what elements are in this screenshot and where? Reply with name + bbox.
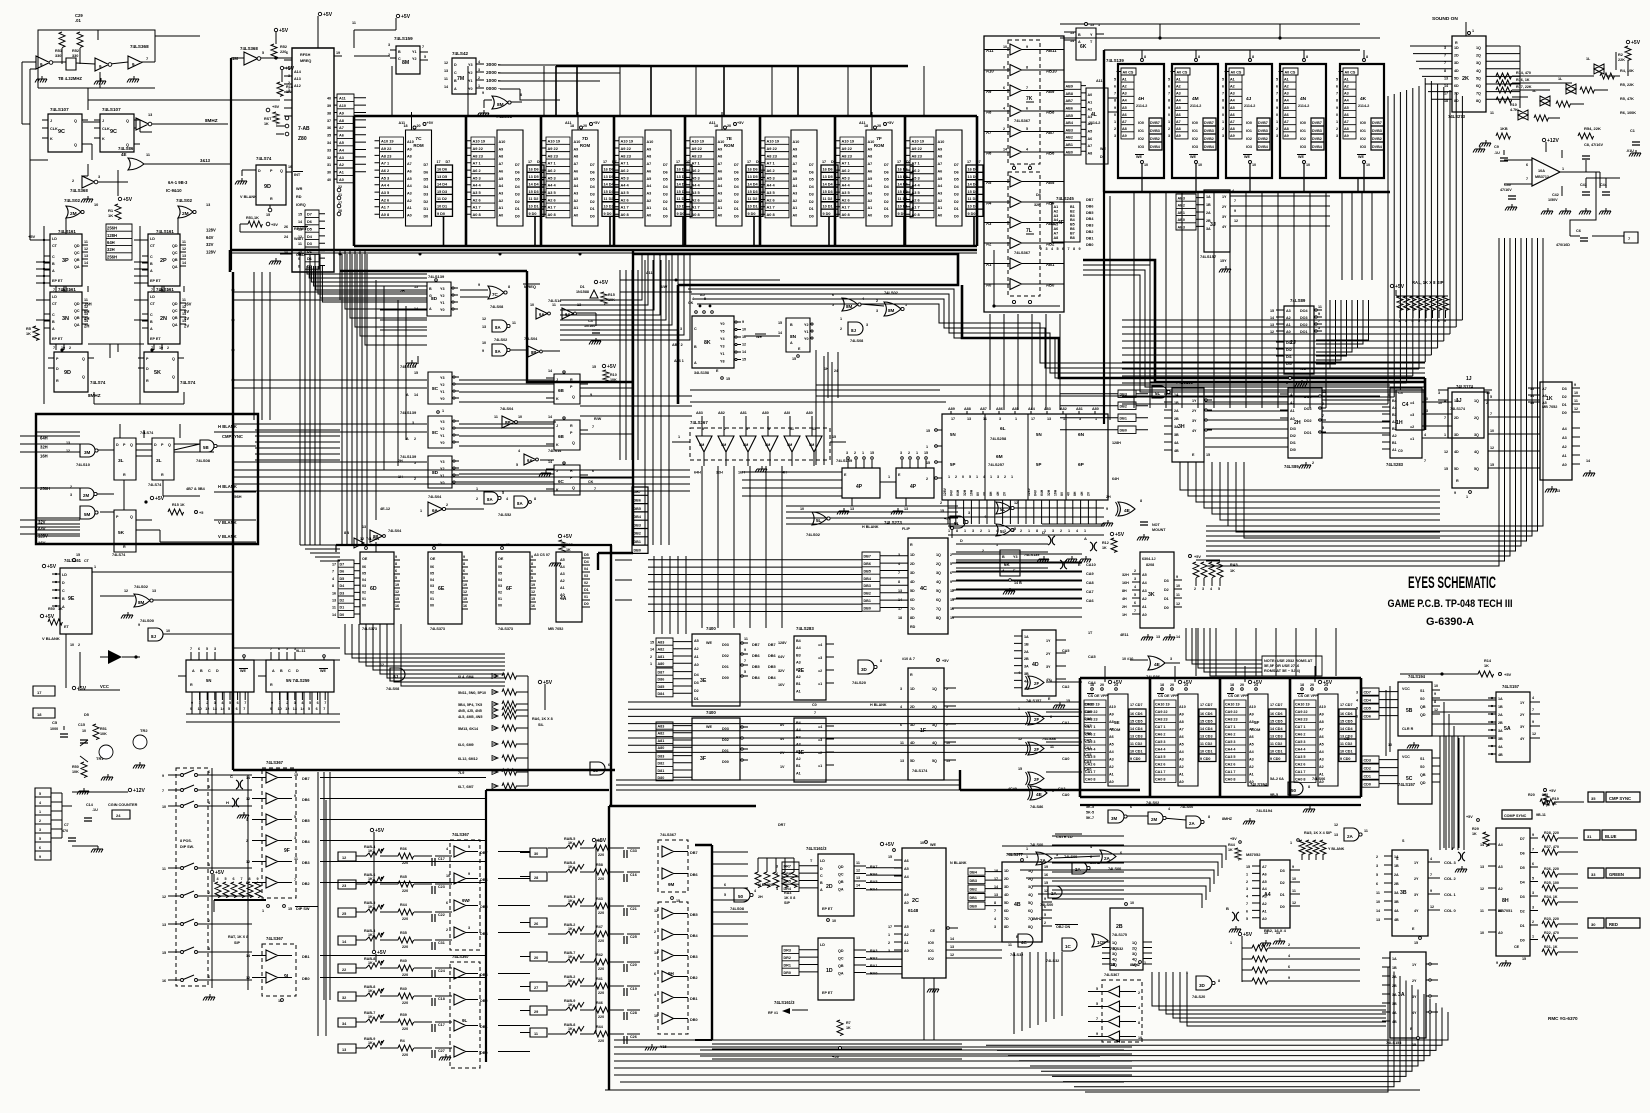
svg-text:8B: 8B (373, 534, 378, 539)
svg-text:A9 22: A9 22 (381, 146, 392, 151)
svg-text:+5V: +5V (401, 14, 411, 20)
svg-text:D5: D5 (663, 178, 668, 182)
svg-text:0: 0 (962, 475, 964, 479)
svg-text:15 D3: 15 D3 (823, 190, 833, 194)
svg-text:11: 11 (352, 21, 356, 25)
svg-text:A2: A2 (1286, 316, 1291, 320)
svg-text:2114-2: 2114-2 (1136, 104, 1147, 108)
svg-text:C18: C18 (438, 997, 445, 1001)
svg-text:DI0: DI0 (1286, 362, 1292, 366)
svg-text:A0: A0 (1109, 780, 1114, 784)
svg-text:6: 6 (1425, 319, 1427, 323)
svg-text:DB2: DB2 (634, 532, 641, 536)
svg-text:15: 15 (888, 855, 892, 859)
svg-text:A11: A11 (339, 97, 346, 101)
svg-text:A: A (429, 307, 432, 311)
svg-text:8Q: 8Q (1028, 925, 1033, 929)
svg-text:9: 9 (742, 320, 744, 324)
svg-text:Q: Q (74, 119, 77, 123)
svg-text:A10 19: A10 19 (381, 139, 394, 144)
svg-text:8: 8 (1308, 785, 1310, 789)
svg-text:9L-11: 9L-11 (296, 649, 305, 653)
svg-text:4B: 4B (1392, 1020, 1397, 1024)
svg-text:2A: 2A (1394, 873, 1399, 877)
svg-text:1Y: 1Y (1046, 639, 1051, 643)
svg-text:17: 17 (528, 160, 532, 164)
svg-text:7: 7 (1114, 92, 1116, 96)
svg-text:1K: 1K (180, 503, 185, 507)
svg-text:2V: 2V (1086, 491, 1090, 496)
svg-text:6: 6 (316, 707, 318, 711)
svg-text:A7: A7 (1230, 120, 1235, 124)
svg-text:2H: 2H (400, 289, 405, 293)
svg-text:R55: R55 (566, 543, 573, 547)
svg-text:8A: 8A (495, 325, 501, 330)
svg-text:6: 6 (317, 701, 319, 705)
svg-text:D1: D1 (663, 207, 668, 211)
svg-text:11 CD2: 11 CD2 (1340, 742, 1352, 746)
svg-text:DR1: DR1 (784, 964, 791, 968)
svg-text:2: 2 (446, 928, 448, 932)
svg-text:R19: R19 (1552, 797, 1559, 801)
svg-text:15: 15 (463, 597, 467, 601)
svg-text:12: 12 (1574, 407, 1578, 411)
svg-text:AB1: AB1 (1178, 211, 1185, 215)
svg-text:2: 2 (840, 327, 842, 331)
svg-text:1: 1 (1084, 529, 1086, 533)
svg-text:9L: 9L (462, 1018, 468, 1023)
svg-text:A7 1: A7 1 (912, 161, 921, 166)
svg-text:C42: C42 (1552, 193, 1559, 197)
svg-text:03: 03 (498, 584, 502, 588)
svg-text:D6: D6 (884, 170, 889, 174)
svg-text:R: R (123, 473, 126, 477)
svg-text:1A: 1A (1498, 697, 1503, 701)
svg-text:8A: 8A (517, 501, 523, 506)
svg-text:D2: D2 (340, 599, 345, 603)
svg-text:15: 15 (288, 907, 292, 911)
svg-text:74LS194: 74LS194 (1250, 782, 1268, 787)
svg-text:RA6, 1K X 8: RA6, 1K X 8 (532, 717, 553, 721)
svg-text:9C: 9C (58, 129, 65, 135)
svg-text:10: 10 (1424, 397, 1428, 401)
svg-text:16V: 16V (778, 683, 785, 687)
svg-text:RED: RED (1609, 922, 1618, 927)
svg-text:12: 12 (1434, 708, 1438, 712)
svg-text:A3: A3 (796, 661, 801, 665)
svg-text:A0: A0 (868, 214, 873, 218)
svg-text:2: 2 (650, 655, 652, 659)
svg-text:22K: 22K (1618, 58, 1625, 62)
svg-text:MREQ: MREQ (300, 59, 311, 63)
svg-text:1L: 1L (1558, 77, 1563, 81)
svg-text:7: 7 (1068, 247, 1070, 251)
svg-text:1K: 1K (1472, 832, 1477, 836)
svg-text:32: 32 (327, 156, 331, 160)
svg-text:D1: D1 (1164, 597, 1169, 601)
svg-text:5N: 5N (950, 432, 956, 437)
svg-text:5B: 5B (203, 445, 209, 450)
svg-text:D3: D3 (1562, 387, 1567, 391)
svg-text:2A: 2A (1051, 891, 1057, 896)
svg-text:CT: CT (52, 302, 58, 306)
svg-text:74LS157: 74LS157 (1200, 254, 1217, 259)
svg-text:A3: A3 (1122, 92, 1127, 96)
svg-text:1: 1 (862, 451, 864, 455)
svg-text:A10: A10 (1109, 705, 1116, 709)
svg-text:1: 1 (442, 409, 444, 413)
svg-text:R50: R50 (48, 607, 55, 611)
svg-text:74LS74: 74LS74 (148, 483, 162, 487)
svg-text:37: 37 (327, 119, 331, 123)
svg-text:7: 7 (1134, 609, 1136, 613)
svg-text:CA0 8: CA0 8 (1085, 778, 1095, 782)
svg-text:S1: S1 (1420, 757, 1425, 761)
svg-text:2P: 2P (160, 258, 167, 264)
svg-text:74LS10: 74LS10 (76, 462, 91, 467)
svg-text:+5V: +5V (1631, 40, 1641, 46)
svg-text:9: 9 (702, 427, 704, 431)
svg-text:AB4: AB4 (1066, 121, 1074, 125)
svg-text:8MHZ: 8MHZ (88, 393, 101, 398)
svg-text:DI3: DI3 (1286, 341, 1292, 345)
svg-text:5: 5 (1168, 77, 1170, 81)
svg-text:A0 8: A0 8 (381, 212, 390, 217)
svg-text:03: 03 (430, 584, 434, 588)
svg-text:32V: 32V (38, 520, 46, 525)
svg-text:3: 3 (1246, 887, 1248, 891)
svg-text:1K: 1K (26, 332, 31, 336)
svg-text:8Q: 8Q (1476, 99, 1481, 103)
svg-text:DVB3: DVB3 (1372, 129, 1382, 133)
svg-text:ROM: ROM (413, 143, 424, 148)
svg-text:16 D6: 16 D6 (437, 168, 447, 172)
svg-text:16 CD6: 16 CD6 (1340, 712, 1353, 716)
svg-text:20: 20 (534, 956, 538, 960)
svg-text:9 CD0: 9 CD0 (1270, 757, 1280, 761)
svg-text:A0 8: A0 8 (692, 212, 701, 217)
svg-text:A0: A0 (339, 178, 344, 182)
svg-text:D2: D2 (1562, 395, 1567, 399)
svg-text:4P: 4P (856, 484, 863, 490)
svg-text:CA1 7: CA1 7 (1155, 770, 1165, 774)
svg-text:3: 3 (478, 68, 480, 72)
svg-text:2: 2 (1222, 127, 1224, 131)
svg-text:16 CD6: 16 CD6 (1200, 712, 1213, 716)
svg-text:QB: QB (172, 258, 178, 262)
svg-text:CD7: CD7 (1364, 691, 1371, 695)
svg-text:RMC #G-6370: RMC #G-6370 (1548, 1016, 1578, 1021)
svg-text:74LS367: 74LS367 (452, 832, 470, 837)
svg-text:5: 5 (1322, 426, 1324, 430)
svg-text:DB2: DB2 (690, 976, 698, 980)
svg-text:D82: D82 (658, 762, 665, 766)
svg-text:1B: 1B (1394, 864, 1399, 868)
svg-text:3Y: 3Y (1414, 893, 1419, 897)
svg-text:1D: 1D (910, 553, 915, 557)
svg-text:2B: 2B (1174, 417, 1179, 421)
svg-text:DB4: DB4 (768, 676, 776, 680)
svg-text:DI0: DI0 (1290, 448, 1296, 452)
svg-text:2C: 2C (912, 898, 919, 904)
svg-text:N BLANK: N BLANK (950, 861, 967, 865)
svg-text:14 D4: 14 D4 (823, 182, 834, 186)
svg-text:=3: =3 (818, 656, 822, 660)
svg-text:DB7: DB7 (1086, 198, 1093, 202)
svg-text:8Q: 8Q (936, 616, 941, 620)
svg-text:3: 3 (997, 475, 999, 479)
svg-text:A2 6: A2 6 (621, 197, 630, 202)
svg-text:A0 CS: A0 CS (1231, 71, 1242, 75)
svg-text:Q: Q (130, 443, 133, 447)
svg-text:DB0: DB0 (1120, 429, 1127, 433)
svg-text:2: 2 (1276, 127, 1278, 131)
svg-text:220: 220 (402, 1053, 408, 1057)
svg-text:5E: 5E (1114, 720, 1120, 725)
svg-text:8D: 8D (1454, 99, 1459, 103)
svg-text:7400: 7400 (706, 710, 716, 715)
svg-text:+5V: +5V (77, 686, 87, 692)
svg-text:6D: 6D (1454, 84, 1459, 88)
svg-text:A9: A9 (339, 111, 344, 115)
svg-text:4Q: 4Q (1112, 958, 1117, 962)
svg-text:15: 15 (1522, 957, 1526, 961)
svg-text:DB3: DB3 (480, 973, 488, 977)
svg-text:9: 9 (1168, 106, 1170, 110)
svg-text:IC-9&10: IC-9&10 (166, 188, 182, 193)
svg-text:8J: 8J (393, 674, 399, 679)
svg-text:74LS14: 74LS14 (548, 449, 562, 453)
svg-text:4D: 4D (1032, 662, 1039, 668)
svg-text:11: 11 (856, 861, 860, 865)
svg-text:1K: 1K (368, 933, 373, 937)
svg-text:LD: LD (820, 943, 825, 947)
svg-text:A5: A5 (1542, 401, 1547, 405)
svg-text:2114-2: 2114-2 (1358, 104, 1369, 108)
svg-text:1Y: 1Y (1192, 399, 1197, 403)
svg-text:DB6: DB6 (864, 562, 871, 566)
svg-text:CA2: CA2 (1062, 685, 1069, 689)
svg-text:8: 8 (1336, 99, 1338, 103)
svg-text:A1: A1 (1319, 773, 1324, 777)
svg-text:12: 12 (1234, 219, 1238, 223)
svg-text:2: 2 (908, 451, 910, 455)
svg-text:13: 13 (206, 203, 210, 207)
svg-text:7F: 7F (876, 136, 882, 142)
svg-text:C21: C21 (630, 907, 637, 911)
svg-text:74LS373: 74LS373 (430, 627, 445, 631)
svg-text:A10 19: A10 19 (912, 139, 925, 144)
svg-text:AB2: AB2 (1178, 204, 1185, 208)
svg-text:10: 10 (1252, 163, 1256, 167)
svg-text:39: 39 (327, 104, 331, 108)
svg-text:CA4 4: CA4 4 (1295, 748, 1306, 752)
svg-text:7: 7 (898, 571, 900, 575)
svg-text:9: 9 (1114, 106, 1116, 110)
svg-text:D7: D7 (446, 160, 451, 164)
svg-text:CS OE VPP: CS OE VPP (1228, 694, 1248, 698)
svg-text:2V: 2V (780, 751, 785, 755)
svg-text:8: 8 (1073, 247, 1075, 251)
svg-text:12: 12 (380, 663, 384, 667)
svg-text:15: 15 (395, 597, 399, 601)
svg-text:RD: RD (296, 195, 302, 199)
svg-text:6D: 6D (370, 586, 377, 592)
svg-text:DB7: DB7 (768, 643, 776, 647)
svg-text:D6: D6 (954, 170, 959, 174)
svg-text:B: B (820, 881, 823, 885)
svg-text:SIP: SIP (784, 901, 790, 905)
svg-text:Q: Q (172, 357, 175, 361)
svg-text:8C: 8C (432, 430, 439, 436)
svg-text:.1U: .1U (92, 808, 98, 812)
svg-text:12: 12 (531, 590, 535, 594)
svg-text:5: 5 (309, 701, 311, 705)
svg-text:A5 3: A5 3 (473, 175, 482, 180)
svg-text:1: 1 (478, 84, 480, 88)
svg-text:1K: 1K (568, 899, 573, 903)
svg-text:3L: 3L (156, 458, 162, 464)
svg-text:2114-2: 2114-2 (1244, 104, 1255, 108)
svg-text:74LS04: 74LS04 (524, 337, 538, 341)
svg-text:1: 1 (420, 509, 422, 513)
svg-text:3Y: 3Y (1046, 665, 1051, 669)
svg-text:A1: A1 (1392, 448, 1397, 452)
svg-text:4C: 4C (1021, 940, 1028, 945)
svg-text:10 D1: 10 D1 (529, 204, 539, 208)
svg-text:9 D0: 9 D0 (604, 212, 612, 216)
svg-text:TB 4.32MHZ: TB 4.32MHZ (58, 76, 82, 81)
svg-text:A0 CS: A0 CS (1177, 71, 1188, 75)
svg-text:06: 06 (362, 565, 366, 569)
svg-text:1: 1 (678, 435, 680, 439)
svg-text:4E11: 4E11 (1120, 633, 1129, 637)
svg-text:6L12, 6M12: 6L12, 6M12 (458, 757, 478, 761)
svg-text:A5: A5 (694, 639, 699, 643)
svg-text:A9: A9 (574, 147, 579, 151)
svg-text:AB1: AB1 (1066, 143, 1073, 147)
svg-text:8: 8 (508, 285, 510, 289)
svg-text:38: 38 (327, 111, 331, 115)
svg-text:8M: 8M (497, 102, 504, 108)
svg-text:9: 9 (531, 555, 533, 559)
svg-text:DB1: DB1 (634, 540, 641, 544)
svg-text:RA4: RA4 (870, 888, 878, 892)
svg-text:11 D2: 11 D2 (437, 197, 447, 201)
svg-text:6C: 6C (558, 479, 565, 484)
svg-text:13 D5: 13 D5 (529, 175, 539, 179)
svg-text:1: 1 (199, 701, 201, 705)
svg-text:+5V: +5V (1243, 932, 1253, 938)
svg-text:Z80: Z80 (298, 136, 307, 142)
svg-text:74LS245: 74LS245 (1056, 196, 1074, 201)
svg-text:A1: A1 (1249, 773, 1254, 777)
svg-text:74LS368: 74LS368 (240, 46, 258, 51)
svg-text:D5: D5 (424, 178, 429, 182)
svg-text:AB10: AB10 (1046, 69, 1057, 74)
svg-text:QB: QB (1420, 773, 1426, 777)
svg-text:5: 5 (531, 576, 533, 580)
svg-text:D03: D03 (722, 727, 729, 731)
svg-text:A0: A0 (938, 214, 943, 218)
svg-text:14 D4: 14 D4 (529, 182, 540, 186)
svg-text:A82: A82 (658, 648, 665, 652)
svg-text:Y2: Y2 (412, 57, 417, 61)
svg-text:10 D1: 10 D1 (748, 204, 758, 208)
svg-text:11: 11 (444, 77, 448, 81)
svg-text:8: 8 (298, 264, 300, 268)
svg-text:12: 12 (162, 895, 166, 899)
svg-text:10: 10 (1376, 900, 1380, 904)
svg-text:R36: R36 (400, 847, 407, 851)
svg-text:D5: D5 (340, 577, 345, 581)
svg-text:1Q: 1Q (936, 553, 941, 557)
svg-text:74LS74: 74LS74 (140, 431, 154, 435)
svg-text:DB3: DB3 (1086, 224, 1093, 228)
svg-text:RESET: RESET (294, 226, 308, 231)
svg-text:A2: A2 (986, 242, 992, 247)
svg-text:3: 3 (1202, 587, 1204, 591)
svg-text:A2: A2 (1392, 434, 1397, 438)
svg-text:7: 7 (1444, 54, 1446, 58)
svg-text:FLIP: FLIP (902, 527, 911, 531)
svg-text:LD: LD (820, 859, 825, 863)
svg-text:R4, 10K: R4, 10K (1620, 69, 1634, 73)
svg-text:5: 5 (468, 845, 470, 849)
svg-text:A7: A7 (1344, 120, 1349, 124)
svg-text:AB3: AB3 (1178, 225, 1185, 229)
svg-text:4Q: 4Q (1132, 958, 1137, 962)
svg-text:15 D3: 15 D3 (529, 190, 539, 194)
svg-text:11 D2: 11 D2 (898, 197, 908, 201)
svg-text:10 CD1: 10 CD1 (1200, 749, 1213, 753)
svg-text:A8: A8 (718, 155, 723, 159)
svg-text:CA3 5: CA3 5 (1225, 755, 1235, 759)
svg-text:OE: OE (498, 557, 504, 561)
svg-text:A8 23: A8 23 (621, 153, 632, 158)
svg-text:10/160: 10/160 (584, 324, 595, 328)
svg-text:9: 9 (138, 623, 140, 627)
svg-text:A1: A1 (1122, 77, 1127, 81)
svg-text:A6: A6 (904, 859, 909, 863)
svg-text:A8: A8 (793, 155, 798, 159)
svg-text:R: R (570, 378, 573, 382)
svg-text:02: 02 (430, 591, 434, 595)
svg-text:A2: A2 (339, 163, 344, 167)
svg-text:74LS52: 74LS52 (498, 513, 511, 517)
svg-text:15: 15 (778, 321, 782, 325)
svg-text:CA4 4: CA4 4 (1155, 748, 1166, 752)
svg-text:6: 6 (1526, 163, 1528, 167)
svg-text:5N 74LS259: 5N 74LS259 (286, 678, 310, 683)
svg-text:7: 7 (1430, 873, 1432, 877)
svg-text:9: 9 (270, 707, 272, 711)
svg-text:6F: 6F (506, 586, 512, 592)
svg-text:12: 12 (742, 343, 746, 347)
svg-text:3Y: 3Y (1222, 215, 1227, 219)
svg-text:D0: D0 (1562, 411, 1567, 415)
svg-text:A7: A7 (868, 162, 873, 166)
svg-text:9: 9 (744, 648, 746, 652)
svg-text:74LS157: 74LS157 (1398, 782, 1416, 787)
svg-text:1K: 1K (1102, 546, 1107, 550)
svg-text:9: 9 (395, 555, 397, 559)
svg-text:11: 11 (162, 867, 166, 871)
svg-text:06: 06 (430, 565, 434, 569)
svg-text:1K: 1K (368, 961, 373, 965)
svg-text:6148: 6148 (908, 908, 919, 913)
svg-text:Y0: Y0 (440, 397, 445, 401)
